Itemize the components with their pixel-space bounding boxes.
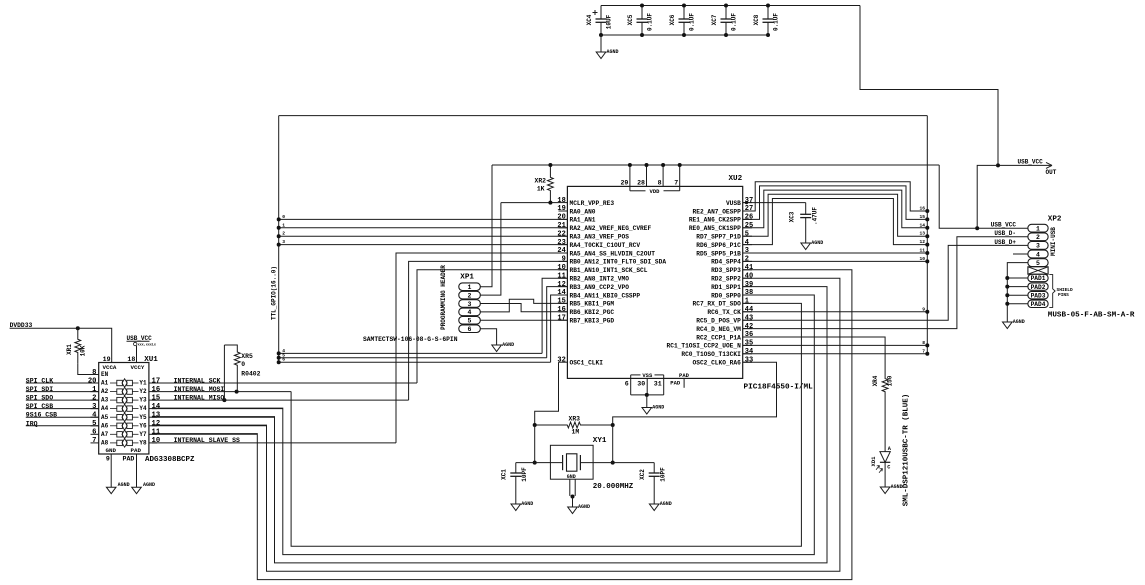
- XU2 pin 22 RA3_AN3_VREF_POS: [559, 235, 568, 237]
- wire XP1 pin4 to RB5 PGM: [480, 299, 567, 312]
- XU1 level-shift cell row 7: [110, 433, 117, 435]
- svg-text:PAD4: PAD4: [1031, 301, 1046, 308]
- svg-text:XC2: XC2: [639, 469, 646, 480]
- wire Y7 to bottom loop: [152, 433, 257, 435]
- svg-text:0: 0: [241, 361, 245, 368]
- svg-text:R0402: R0402: [241, 371, 260, 378]
- capacitor XC4 10UF: [600, 6, 602, 20]
- XU1 pin 13 Y5: [149, 416, 157, 418]
- svg-text:7: 7: [922, 348, 925, 354]
- svg-text:RE2_AN7_OESPP: RE2_AN7_OESPP: [693, 208, 742, 215]
- svg-text:OSC1_CLKI: OSC1_CLKI: [570, 360, 604, 367]
- svg-text:AGND: AGND: [1013, 319, 1025, 325]
- ground AGND (XU1 GND): [106, 487, 116, 494]
- XU2 pin 15 RB5_KBI1_PGM: [559, 302, 568, 304]
- XU2 pin 43 RC5_D_POS_VP: [743, 319, 752, 321]
- svg-text:RE0_AN5_CK1SPP: RE0_AN5_CK1SPP: [689, 225, 741, 232]
- wire: bottom decoupling rail: [601, 34, 768, 36]
- svg-text:RB7_KBI3_PGD: RB7_KBI3_PGD: [570, 318, 615, 325]
- svg-text:31: 31: [654, 381, 662, 388]
- wire to bus entry 9: [743, 311, 928, 313]
- svg-text:XC5: XC5: [627, 14, 634, 25]
- XU2 pin 32 OSC1_CLKI: [559, 361, 568, 363]
- svg-text:10PF: 10PF: [660, 467, 667, 482]
- XU1 pin 12 Y6: [149, 425, 157, 427]
- svg-text:10: 10: [919, 256, 925, 262]
- wire Y6 to bottom loop: [152, 425, 267, 427]
- svg-text:RC7_RX_DT_SDO: RC7_RX_DT_SDO: [693, 301, 742, 308]
- XU2 pin 20 RA1_AN1: [559, 218, 568, 220]
- wire RC7 SDO to INTERNAL_MOSI loop: [291, 303, 801, 546]
- svg-text:12: 12: [152, 420, 161, 428]
- XU2 pin 11 RB2_AN8_INT2_VMO: [559, 277, 568, 279]
- wire MCLR down to XP1 pin2: [480, 203, 501, 296]
- svg-text:A7: A7: [101, 431, 109, 438]
- XU2 pin 34 RC0_T1OSO_T13CKI: [743, 353, 752, 355]
- svg-text:41: 41: [745, 264, 753, 272]
- XP1 pin 1: [459, 283, 481, 291]
- XP2 shield pins bracket: [1049, 275, 1055, 308]
- svg-text:XC1: XC1: [501, 469, 508, 480]
- svg-text:A4: A4: [101, 405, 109, 412]
- svg-text:19: 19: [557, 205, 565, 213]
- svg-text:PAD2: PAD2: [1031, 284, 1046, 291]
- svg-text:XP1: XP1: [460, 274, 474, 282]
- XP2 PAD4: [1028, 300, 1048, 307]
- svg-text:PAD: PAD: [670, 379, 681, 386]
- capacitor XC8 0.1UF: [767, 6, 769, 20]
- svg-text:A6: A6: [101, 422, 109, 429]
- XU2 pin 1 RC7_RX_DT_SDO: [743, 302, 752, 304]
- XU1 pin 16 Y2: [149, 391, 157, 393]
- svg-text:1: 1: [282, 222, 285, 228]
- wire Y5 to bottom loop: [152, 416, 275, 418]
- svg-text:29: 29: [620, 180, 628, 187]
- svg-text:0: 0: [282, 214, 285, 220]
- svg-text:3: 3: [1036, 243, 1040, 250]
- XP1 pin 2: [459, 291, 481, 299]
- svg-text:15: 15: [557, 298, 565, 306]
- svg-text:AGND: AGND: [521, 501, 533, 507]
- XU2 pin 24 RA5_AN4_SS_HLVDIN_C2OUT: [559, 252, 568, 254]
- svg-text:2: 2: [282, 231, 285, 237]
- svg-text:RB3_AN9_CCP2_VPO: RB3_AN9_CCP2_VPO: [570, 284, 630, 291]
- wire to bus entry 10: [743, 260, 928, 262]
- svg-text:1K: 1K: [537, 186, 545, 193]
- wire PAD4: [1007, 303, 1028, 305]
- svg-text:6: 6: [282, 357, 285, 363]
- svg-text:SML-DSP1210USBC-TR (BLUE): SML-DSP1210USBC-TR (BLUE): [903, 394, 911, 507]
- svg-text:26: 26: [745, 214, 753, 222]
- svg-text:xxx,xxxLx: xxx,xxxLx: [138, 344, 156, 348]
- svg-text:1: 1: [745, 298, 749, 306]
- svg-text:0.1UF: 0.1UF: [689, 13, 696, 31]
- capacitor XC1 10PF: [515, 463, 517, 473]
- svg-text:A8: A8: [101, 440, 109, 447]
- svg-text:RD4_SPP4: RD4_SPP4: [711, 259, 741, 266]
- XP2 pin 5: [1028, 259, 1048, 267]
- svg-text:42: 42: [745, 323, 753, 331]
- XU2 pin 18 MCLR_VPP_RE3: [559, 202, 568, 204]
- svg-text:XC7: XC7: [711, 14, 718, 25]
- svg-text:1: 1: [468, 284, 472, 291]
- svg-text:AGND: AGND: [502, 342, 514, 348]
- svg-text:RC2_CCP1_P1A: RC2_CCP1_P1A: [696, 334, 741, 341]
- XP2 PAD2: [1028, 283, 1048, 290]
- svg-text:Y1: Y1: [139, 380, 147, 387]
- resistor XR2 1K: [548, 165, 554, 203]
- svg-text:4: 4: [468, 309, 472, 316]
- svg-text:XR1: XR1: [66, 344, 73, 355]
- svg-text:XU2: XU2: [729, 175, 743, 183]
- bus TTL_GPIO(16..0) vertical (left): [278, 116, 280, 363]
- svg-text:VCCA: VCCA: [103, 364, 117, 371]
- svg-text:6: 6: [92, 429, 96, 437]
- svg-text:A5: A5: [101, 414, 109, 421]
- XU1 pin 4 A5: [91, 416, 99, 418]
- wire TTL_GPIO.0 to RA1: [279, 218, 568, 220]
- svg-text:10K: 10K: [79, 345, 86, 356]
- svg-text:23: 23: [557, 239, 565, 247]
- XU2 pin 39 RD1_SPP1: [743, 286, 752, 288]
- XU1 pin 14 Y4: [149, 408, 157, 410]
- svg-text:RB2_AN8_INT2_VMO: RB2_AN8_INT2_VMO: [570, 276, 630, 283]
- svg-text:RD2_SPP2: RD2_SPP2: [711, 276, 741, 283]
- XU2 pin 42 RC4_D_NEG_VM: [743, 328, 752, 330]
- wire XP1 pin6 to ground: [480, 329, 496, 345]
- svg-text:RC4_D_NEG_VM: RC4_D_NEG_VM: [696, 326, 741, 333]
- svg-text:RB1_AN10_INT1_SCK_SCL: RB1_AN10_INT1_SCK_SCL: [570, 267, 648, 274]
- wire VSS to ground: [646, 395, 648, 408]
- svg-text:7: 7: [674, 180, 678, 187]
- svg-text:3: 3: [745, 247, 749, 255]
- XU1 pin 6 A7: [91, 433, 99, 435]
- svg-text:19: 19: [103, 356, 111, 363]
- wire Y4 to bottom loop: [152, 408, 283, 410]
- XU1 level-shift cell row 1: [110, 382, 117, 384]
- wire RC2 to LED resistor: [743, 337, 885, 378]
- svg-text:XU1: XU1: [144, 356, 158, 364]
- svg-text:RD3_SPP3: RD3_SPP3: [711, 267, 741, 274]
- wire arc pin row 13 over XC3 to bus: [743, 194, 928, 236]
- svg-text:1: 1: [1036, 226, 1040, 233]
- ground AGND (XC3): [801, 243, 811, 250]
- svg-text:XD1: XD1: [870, 456, 877, 467]
- svg-text:17: 17: [557, 314, 565, 322]
- node USB_VCC OUT off-page arrow: [998, 164, 1052, 166]
- XU2 pin 23 RA4_T0CKI_C1OUT_RCV: [559, 244, 568, 246]
- svg-text:A3: A3: [101, 397, 109, 404]
- svg-text:GND: GND: [567, 474, 576, 480]
- wire OSC2: [613, 362, 777, 425]
- svg-text:11: 11: [919, 248, 925, 254]
- svg-text:Y4: Y4: [139, 405, 147, 412]
- svg-text:2: 2: [745, 256, 749, 264]
- svg-text:14: 14: [152, 403, 161, 411]
- svg-text:SAMTECTSW-106-08-G-S-6PIN: SAMTECTSW-106-08-G-S-6PIN: [363, 336, 458, 343]
- resistor XR3 1M: [535, 422, 613, 428]
- svg-text:9: 9: [106, 456, 110, 463]
- XU2 pin 25 RE0_AN5_CK1SPP: [743, 227, 752, 229]
- wire RD1 to bottom loop: [152, 287, 827, 563]
- wire RD2 to bottom loop: [152, 278, 840, 571]
- svg-text:.47UF: .47UF: [812, 207, 819, 225]
- junction: [533, 461, 537, 465]
- wire arc pin row 15 over XC3 to bus: [743, 186, 928, 220]
- svg-text:8: 8: [658, 180, 662, 187]
- wire to bus entry 11: [743, 252, 928, 254]
- svg-text:USB_VCC: USB_VCC: [1018, 158, 1044, 165]
- svg-text:INTERNAL_MISO: INTERNAL_MISO: [174, 394, 225, 401]
- wire TTL_GPIO.4: [279, 352, 542, 354]
- wire INTERNAL_SLAVE_SS: [152, 442, 396, 444]
- wire INTERNAL_MOSI: [152, 391, 291, 393]
- svg-text:14: 14: [919, 222, 925, 228]
- junction: [724, 4, 728, 8]
- svg-text:Y3: Y3: [139, 397, 147, 404]
- XU2 pin 14 RB4_AN11_KBI0_CSSPP: [559, 294, 568, 296]
- ground AGND (XD1): [880, 487, 890, 494]
- svg-text:XC3: XC3: [789, 211, 796, 222]
- svg-text:XR3: XR3: [569, 416, 581, 423]
- bus TTL_GPIO vertical (right): [926, 116, 928, 354]
- wire: rail to analog ground: [600, 35, 602, 52]
- ground AGND (XU2 VSS): [642, 408, 652, 415]
- svg-text:14: 14: [557, 289, 565, 297]
- svg-text:36: 36: [745, 331, 753, 339]
- XP1 pin 5: [459, 317, 481, 325]
- wire RA5 to INTERNAL_SLAVE_SS: [396, 253, 567, 443]
- bus TTL_GPIO horizontal top: [279, 115, 928, 117]
- svg-text:RA1_AN1: RA1_AN1: [570, 217, 596, 224]
- svg-text:VUSB: VUSB: [726, 200, 741, 207]
- svg-text:150: 150: [886, 375, 893, 386]
- wire XP1 pin5 to RB7 PGD: [480, 319, 567, 321]
- junction at XC4 bottom: [599, 33, 603, 37]
- svg-text:PAD1: PAD1: [1031, 275, 1046, 282]
- svg-text:RA5_AN4_SS_HLVDIN_C2OUT: RA5_AN4_SS_HLVDIN_C2OUT: [570, 250, 656, 257]
- svg-text:USB_VCC: USB_VCC: [991, 222, 1017, 229]
- svg-text:RD1_SPP1: RD1_SPP1: [711, 284, 741, 291]
- IC XU2 PIC18F4550-I/ML body: [567, 186, 742, 378]
- svg-text:34: 34: [745, 348, 753, 356]
- junction: [533, 423, 537, 427]
- svg-text:4: 4: [745, 239, 749, 247]
- svg-text:4: 4: [1036, 251, 1040, 258]
- svg-text:17: 17: [152, 377, 161, 385]
- svg-text:3: 3: [468, 301, 472, 308]
- svg-text:RB6_KBI2_PGC: RB6_KBI2_PGC: [570, 309, 615, 316]
- junction: [76, 326, 80, 330]
- svg-text:VCCY: VCCY: [131, 364, 145, 371]
- XP2 pin 4: [1028, 250, 1048, 258]
- svg-text:A1: A1: [101, 380, 109, 387]
- svg-text:0.1UF: 0.1UF: [731, 13, 738, 31]
- junction VSS rail: [645, 393, 649, 397]
- XP1 pin 4: [459, 308, 481, 316]
- svg-text:3: 3: [92, 403, 96, 411]
- wire crystal left lead: [516, 462, 563, 464]
- svg-text:AGND: AGND: [811, 240, 823, 246]
- wire OSC1: [535, 362, 559, 425]
- XU1 pin 15 Y3: [149, 399, 157, 401]
- XU1 pin 20 A1: [91, 382, 99, 384]
- capacitor XC7 0.1UF: [725, 6, 727, 20]
- svg-text:Y5: Y5: [139, 414, 147, 421]
- svg-text:C: C: [887, 465, 890, 471]
- svg-text:2: 2: [1036, 234, 1040, 241]
- wire RB4 to bus: [551, 295, 568, 362]
- svg-text:RC0_T1OSO_T13CKI: RC0_T1OSO_T13CKI: [681, 351, 741, 358]
- wire arc pin row 12 over XC3 to bus: [743, 199, 928, 245]
- svg-text:1M: 1M: [572, 428, 580, 435]
- XU2 pin 16 RB6_KBI2_PGC: [559, 311, 568, 313]
- svg-text:Y7: Y7: [139, 431, 147, 438]
- svg-text:MUSB-05-F-AB-SM-A-R: MUSB-05-F-AB-SM-A-R: [1048, 312, 1135, 320]
- XU1 pin 1 A2: [91, 391, 99, 393]
- XU2 pin 26 RE1_AN6_CK2SPP: [743, 218, 752, 220]
- svg-text:16: 16: [152, 386, 161, 394]
- wire to bus entry 7: [743, 353, 928, 355]
- svg-text:RA4_T0CKI_C1OUT_RCV: RA4_T0CKI_C1OUT_RCV: [570, 242, 641, 249]
- XU1 pin 8 EN: [91, 374, 99, 376]
- XU2 pin 4 RD6_SPP6_P1C: [743, 244, 752, 246]
- XU2 pin 44 RC6_TX_CK: [743, 311, 752, 313]
- svg-text:RC1_T1OSI_CCP2_UOE_N: RC1_T1OSI_CCP2_UOE_N: [667, 343, 742, 350]
- wire RB3 to bus: [547, 287, 568, 358]
- svg-text:Y6: Y6: [139, 422, 147, 429]
- svg-text:11: 11: [152, 429, 161, 437]
- XU2 pin 9 RB0_AN12_INT0_FLT0_SDI_SDA: [559, 260, 568, 262]
- XP2 shell cell (X box): [1028, 267, 1048, 274]
- junction XR5/MISO: [222, 398, 226, 402]
- XU2 pin 37 VUSB: [743, 202, 752, 204]
- svg-text:33: 33: [745, 356, 753, 364]
- XP2 pin 3: [1028, 242, 1048, 250]
- svg-text:INTERNAL_MOSI: INTERNAL_MOSI: [174, 386, 225, 393]
- svg-text:18: 18: [557, 197, 565, 205]
- wire: [612, 425, 614, 463]
- XU1 pin 2 A3: [91, 399, 99, 401]
- svg-text:EN: EN: [101, 371, 109, 378]
- svg-text:8: 8: [92, 369, 96, 377]
- svg-text:18: 18: [127, 356, 135, 363]
- svg-text:13: 13: [919, 231, 925, 237]
- svg-text:20.000MHZ: 20.000MHZ: [593, 483, 634, 491]
- XU2 pin 36 RC2_CCP1_P1A: [743, 336, 752, 338]
- wire RB0 to INTERNAL_MISO: [409, 261, 568, 400]
- XU2 pin 27 RE2_AN7_OESPP: [743, 210, 752, 212]
- svg-text:0.1UF: 0.1UF: [647, 13, 654, 31]
- XU2 VDD pins 29 28 8 7: [629, 165, 631, 186]
- svg-text:A2: A2: [101, 388, 109, 395]
- svg-text:XR2: XR2: [534, 177, 546, 184]
- wire: [534, 425, 536, 463]
- XU1 pin 7 A8: [91, 442, 99, 444]
- junction: [682, 4, 686, 8]
- svg-text:RD0_SPP0: RD0_SPP0: [711, 292, 741, 299]
- capacitor XC5 0.1UF: [641, 6, 643, 20]
- wire: USB_VCC branch up to OUT arrow: [977, 165, 998, 228]
- svg-text:0.1UF: 0.1UF: [773, 13, 780, 31]
- svg-text:7: 7: [92, 437, 96, 445]
- wire: top decoupling rail: [601, 5, 860, 7]
- svg-text:XY1: XY1: [593, 437, 607, 445]
- XU1 pin 11 Y7: [149, 433, 157, 435]
- svg-text:RB0_AN12_INT0_FLT0_SDI_SDA: RB0_AN12_INT0_FLT0_SDI_SDA: [570, 259, 667, 266]
- svg-text:15: 15: [152, 394, 161, 402]
- svg-text:RE1_AN6_CK2SPP: RE1_AN6_CK2SPP: [689, 217, 741, 224]
- XU1 level-shift cell row 3: [110, 399, 117, 401]
- svg-text:15: 15: [919, 214, 925, 220]
- XU2 VSS pins 6 30 31: [630, 375, 632, 379]
- svg-text:1: 1: [92, 386, 97, 394]
- wire VUSB: [743, 202, 806, 204]
- svg-text:5: 5: [92, 420, 96, 428]
- svg-text:VDD: VDD: [650, 188, 661, 195]
- svg-text:9: 9: [922, 306, 925, 312]
- wire TTL_GPIO.2 to RA3: [279, 235, 568, 237]
- wire TTL_GPIO.3 to RA4: [279, 244, 568, 246]
- wire XP2 pin5 + pads to ground: [1007, 263, 1028, 322]
- svg-text:PROGRAMMING HEADER: PROGRAMMING HEADER: [440, 265, 447, 330]
- svg-text:USB_D-: USB_D-: [994, 230, 1016, 237]
- svg-text:RD7_SPP7_P1D: RD7_SPP7_P1D: [696, 234, 741, 241]
- XP2 PAD1: [1028, 274, 1048, 281]
- wire TTL_GPIO.1 to RA2: [279, 227, 568, 229]
- svg-text:28: 28: [637, 180, 645, 187]
- svg-text:PAD3: PAD3: [1031, 292, 1046, 299]
- wire XP1 pin3 to RB6 PGC: [480, 304, 567, 312]
- svg-text:RB5_KBI1_PGM: RB5_KBI1_PGM: [570, 301, 615, 308]
- wire MCLR net: [501, 202, 559, 204]
- svg-text:OSC2_CLKO_RA6: OSC2_CLKO_RA6: [693, 360, 742, 367]
- ground AGND (XP2): [1003, 322, 1013, 329]
- XU2 pin 41 RD3_SPP3: [743, 269, 752, 271]
- XP2 pin 1: [1028, 224, 1048, 232]
- svg-text:INTERNAL_SLAVE_SS: INTERNAL_SLAVE_SS: [174, 437, 240, 444]
- svg-text:5: 5: [1036, 260, 1040, 267]
- svg-text:35: 35: [745, 340, 753, 348]
- svg-text:6: 6: [468, 326, 472, 333]
- svg-text:39: 39: [745, 281, 753, 289]
- svg-text:43: 43: [745, 314, 753, 322]
- svg-text:20: 20: [557, 214, 565, 222]
- XU2 pin 10 RB1_AN10_INT1_SCK_SCL: [559, 269, 568, 271]
- XU2 pin 19 RA0_AN0: [559, 210, 568, 212]
- svg-text:24: 24: [557, 247, 565, 255]
- svg-text:38: 38: [745, 289, 753, 297]
- svg-text:22: 22: [557, 230, 565, 238]
- svg-text:XR4: XR4: [872, 375, 879, 386]
- XU1 level-shift cell row 8: [110, 442, 117, 444]
- ground AGND (XU1 PAD): [132, 487, 142, 494]
- wire arc pin row 14 over XC3 to bus: [743, 190, 928, 228]
- XU2 pin 35 RC1_T1OSI_CCP2_UOE_N: [743, 344, 752, 346]
- wire: rail corner down to USB_VCC net: [860, 6, 998, 166]
- svg-text:VSS: VSS: [642, 372, 653, 379]
- svg-text:AGND: AGND: [652, 404, 664, 410]
- junction: [766, 4, 770, 8]
- svg-text:11: 11: [557, 272, 565, 280]
- svg-text:PINS: PINS: [1058, 292, 1069, 298]
- wire RD3 to bottom loop: [152, 270, 852, 580]
- wire: VDD / USB_VCC rail: [492, 164, 939, 166]
- svg-text:AGND: AGND: [143, 482, 155, 488]
- junction USB_VCC: [996, 163, 1000, 167]
- svg-text:RB4_AN11_KBI0_CSSPP: RB4_AN11_KBI0_CSSPP: [570, 292, 641, 299]
- XP1 pin 3: [459, 300, 481, 308]
